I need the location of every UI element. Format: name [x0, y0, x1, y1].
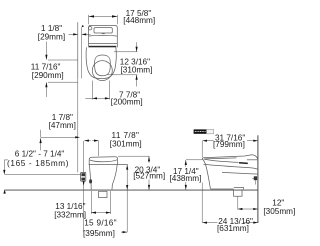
lid inner rect: [94, 28, 112, 33]
bowl front profile: [202, 158, 210, 189]
dim 17 5/8 top width: [88, 15, 90, 24]
lid dash: [102, 33, 105, 35]
lid seam curve: [89, 34, 117, 37]
front lid outline: [89, 157, 117, 165]
lid bottom seam: [203, 164, 257, 169]
svg-text:[395mm]: [395mm]: [83, 229, 115, 238]
logo plate: [194, 129, 207, 133]
floor line: [5, 189, 258, 191]
hinge knob circle top-left: [89, 27, 92, 30]
top view unit outline: [89, 25, 118, 47]
dim 11 7/8: [84, 140, 90, 142]
front visor curve: [90, 160, 117, 162]
dim 13 1/16: [90, 191, 92, 214]
svg-text:[438mm]: [438mm]: [170, 174, 202, 183]
svg-text:[305mm]: [305mm]: [263, 207, 295, 216]
dim 15 9/16 hook: [121, 231, 127, 233]
supply horizontal line: [5, 174, 81, 176]
floor left arrow: [3, 189, 5, 193]
mid seam: [222, 172, 258, 174]
svg-text:[332mm]: [332mm]: [54, 210, 86, 219]
svg-text:6 1/2" - 7 1/4": 6 1/2" - 7 1/4": [15, 150, 65, 159]
seat wedge: [204, 158, 236, 159]
svg-text:[200mm]: [200mm]: [111, 97, 143, 106]
svg-text:[631mm]: [631mm]: [217, 224, 249, 233]
dim 17 1/4 (x=185.8): [186, 159, 203, 161]
supply line L2: [83, 141, 85, 232]
svg-text:[527mm]: [527mm]: [133, 172, 165, 181]
seat outline: [86, 47, 116, 78]
hinge dark dash: [239, 162, 248, 165]
base step: [234, 186, 244, 188]
svg-text:[290mm]: [290mm]: [32, 71, 64, 80]
dim 7 7/8: [91, 81, 93, 100]
seat opening egg: [95, 55, 111, 76]
side profile top: [202, 155, 257, 160]
svg-text:(165 - 185mm): (165 - 185mm): [7, 159, 69, 168]
dim 12 3/16: [136, 42, 138, 51]
dim V2 20 3/4 (x=149): [118, 155, 149, 157]
rear horizontals: [247, 159, 258, 161]
front bowl right edge: [112, 164, 117, 190]
base line: [210, 188, 233, 190]
dim 1 1/8: [77, 22, 79, 78]
side trap: [234, 189, 242, 196]
wall fitting blob: [254, 176, 257, 180]
svg-text:[799mm]: [799mm]: [213, 140, 245, 149]
wall line: [257, 135, 259, 223]
dim 31 7/16: [201, 141, 203, 157]
svg-text:[301mm]: [301mm]: [110, 140, 142, 149]
front bowl left edge: [89, 164, 91, 190]
svg-text:[448mm]: [448mm]: [123, 16, 155, 25]
dim 12 rough-in: [237, 196, 239, 209]
svg-text:15 9/16": 15 9/16": [84, 218, 117, 227]
band dark bar: [89, 46, 116, 48]
dim 24 13/16: [201, 183, 203, 223]
front lid bottom seam + ext to V1: [89, 163, 118, 165]
leader up arrow 6 1/2: [40, 138, 42, 150]
band light line: [89, 42, 117, 44]
svg-text:[29mm]: [29mm]: [38, 32, 65, 41]
supply riser L1: [77, 22, 79, 172]
svg-text:[310mm]: [310mm]: [121, 66, 153, 75]
left bolt cap: [89, 179, 92, 183]
svg-text:[47mm]: [47mm]: [49, 121, 76, 130]
supply stop bracket: [81, 172, 86, 181]
dim 11 7/16: [45, 42, 47, 60]
bowl circle: [92, 61, 112, 81]
dim V1 (x=127): [117, 163, 127, 165]
front trap rect: [99, 191, 107, 197]
